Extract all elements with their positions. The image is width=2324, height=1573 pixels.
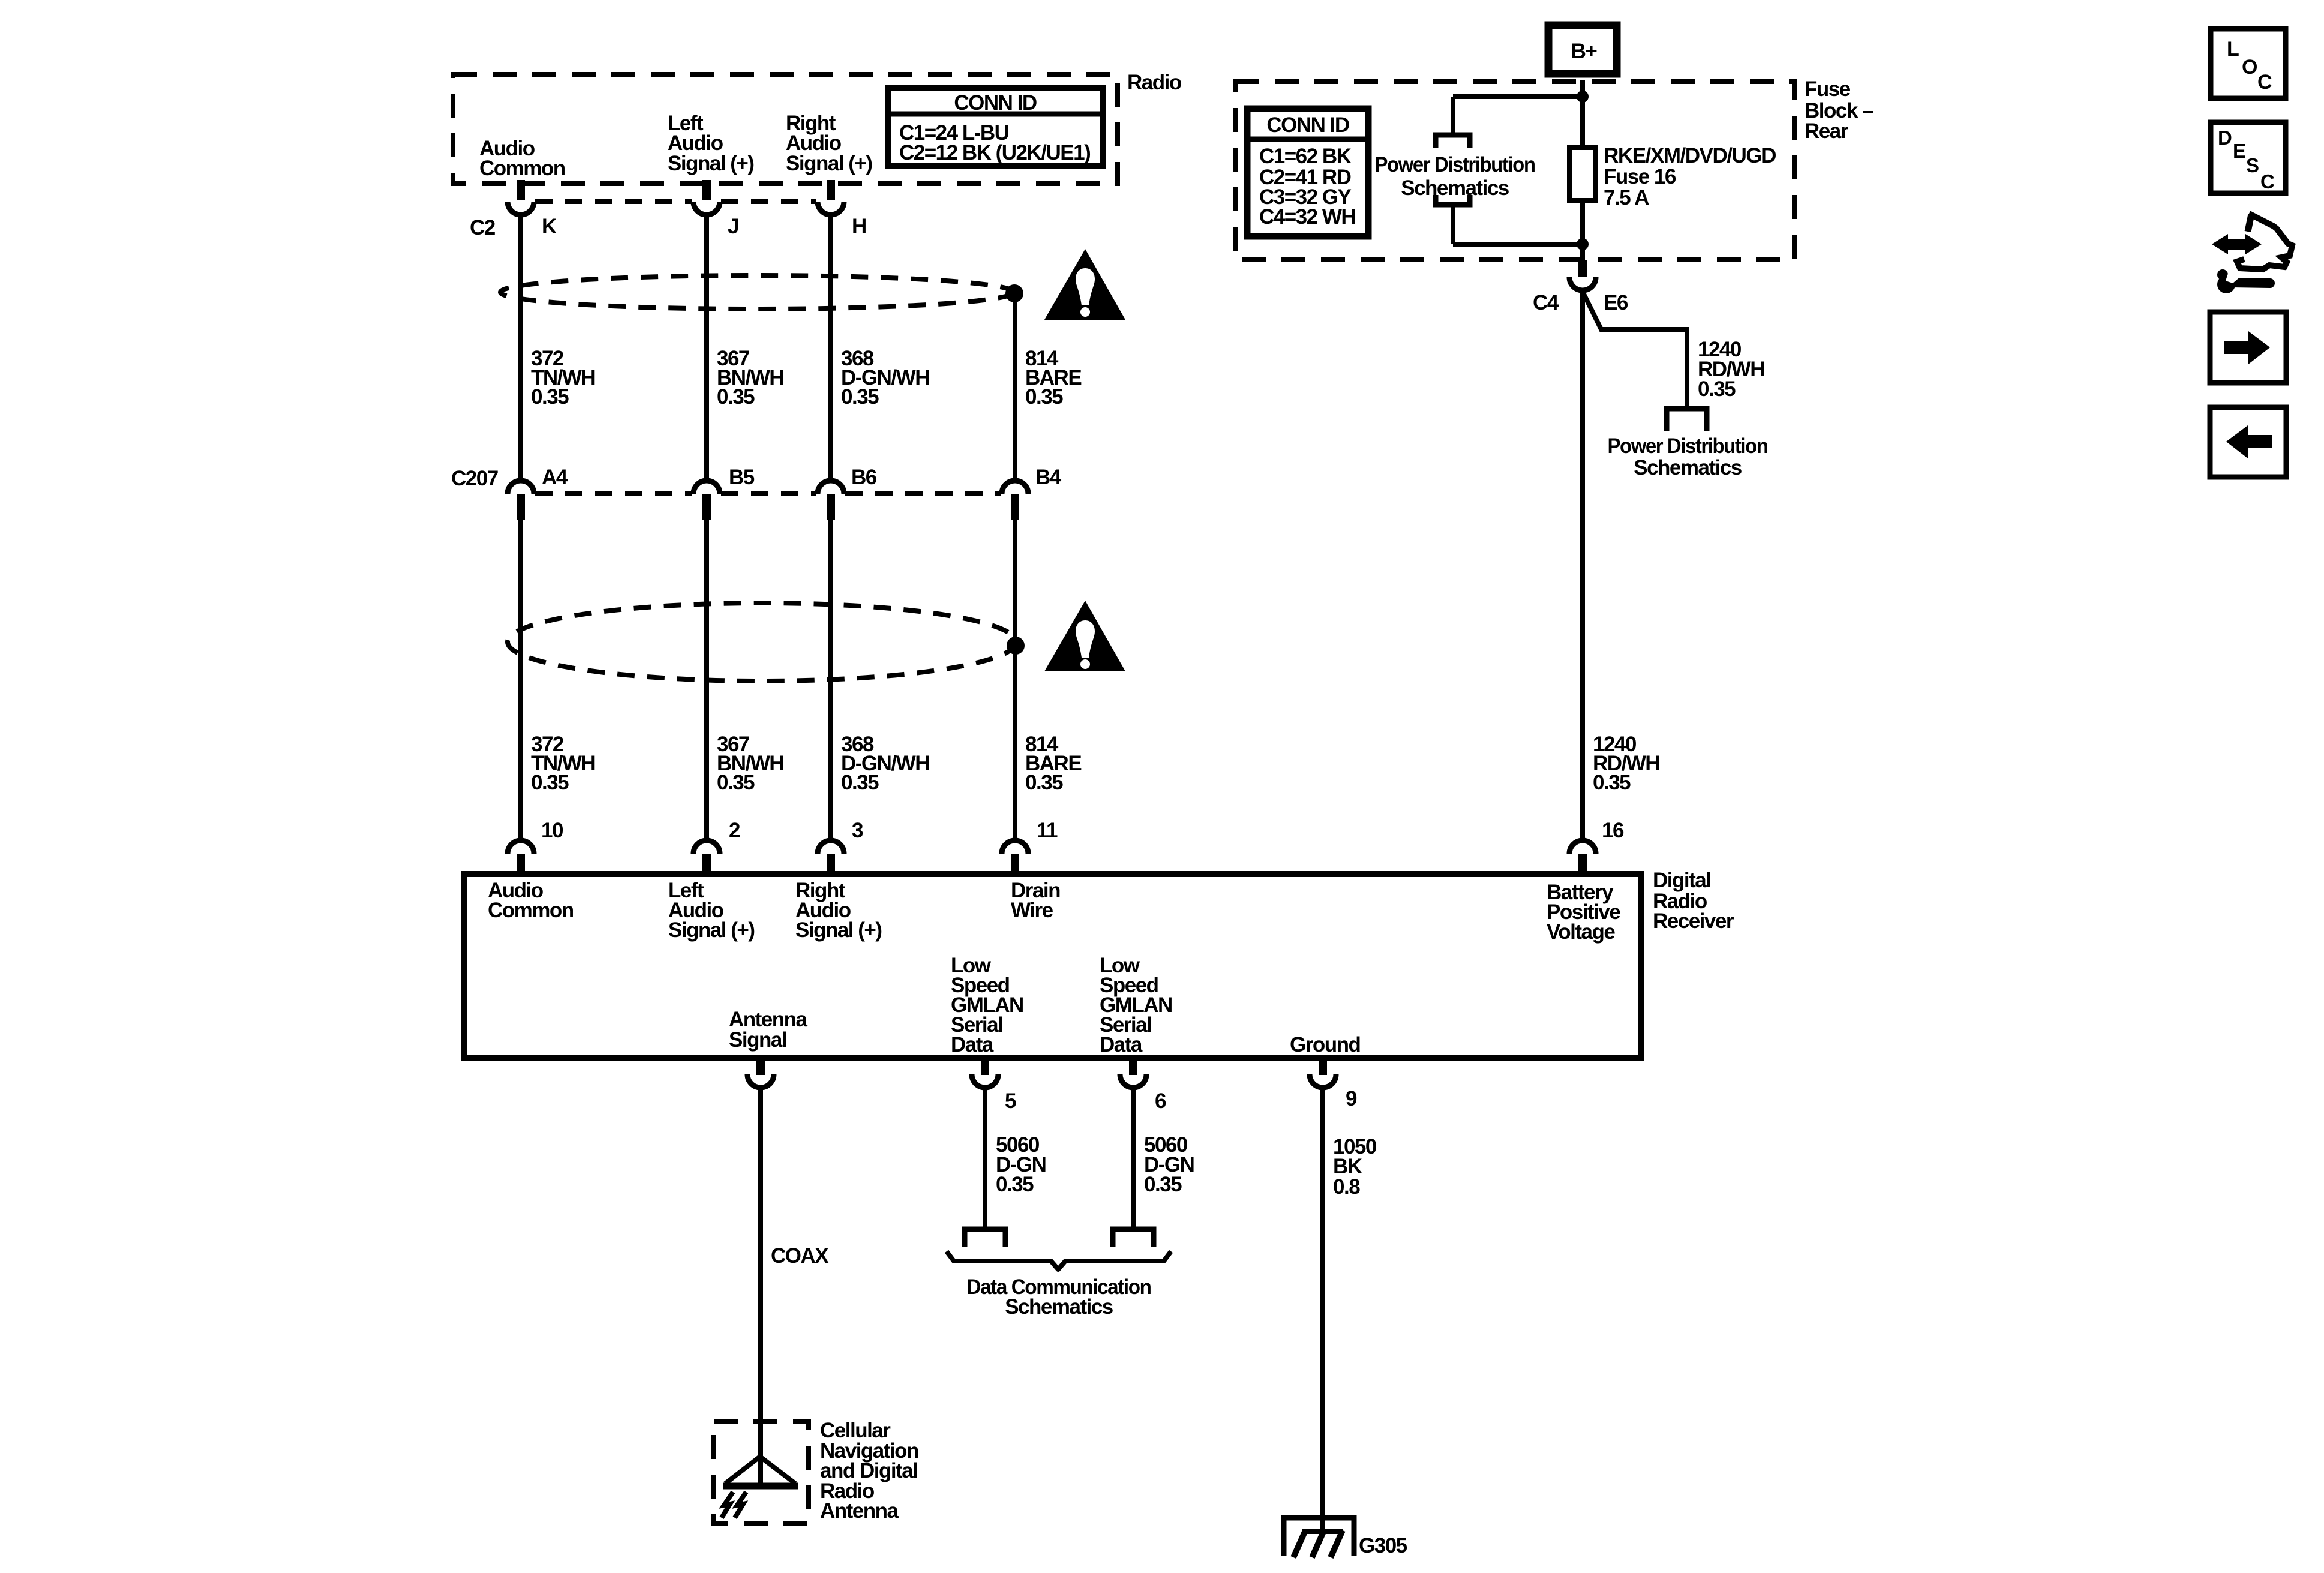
wire top bracket to junction [1453,94,1583,99]
svg-text:7.5 A: 7.5 A [1604,186,1649,209]
svg-text:6: 6 [1155,1089,1166,1113]
wire 368 D-GN/WH lower [828,520,833,841]
svg-text:0.35: 0.35 [1025,771,1063,794]
icon LOC box [2211,29,2286,98]
svg-text:Common: Common [479,157,565,180]
svg-text:B5: B5 [729,466,755,489]
svg-text:0.35: 0.35 [1593,771,1631,794]
ground symbol G305 [1284,1518,1354,1556]
svg-text:Common: Common [488,899,574,922]
icon back arrow box [2210,407,2286,477]
svg-text:Schematics: Schematics [1401,176,1509,200]
fuse block rear dashed box [1235,82,1795,260]
svg-text:O: O [2242,56,2257,79]
svg-text:Antenna: Antenna [820,1499,899,1523]
svg-text:0.35: 0.35 [841,771,879,794]
svg-text:Schematics: Schematics [1005,1295,1113,1319]
svg-text:Receiver: Receiver [1653,909,1734,933]
svg-text:C2: C2 [470,216,496,239]
off-page bracket 1240 [1667,409,1707,431]
receiver pin 5 [981,1058,989,1075]
fuse RKE/XM/DVD/UGD Fuse 16 7.5 A [1569,148,1596,200]
connector C2 pin J [702,180,711,200]
icon forward arrow box [2210,312,2286,383]
junction dot shield upper [1005,284,1023,302]
warning triangle 2 [1044,601,1125,671]
svg-text:Data: Data [951,1033,994,1056]
icon shop tools panel outline [2248,214,2251,232]
svg-text:5: 5 [1005,1089,1016,1113]
svg-text:Schematics: Schematics [1634,456,1742,479]
connector C2 pin H [827,180,835,200]
svg-text:K: K [542,215,557,238]
svg-text:Signal: Signal [729,1028,786,1052]
wire 372 TN/WH upper [518,214,523,481]
svg-text:Signal (+): Signal (+) [668,918,755,942]
svg-text:A4: A4 [542,466,568,489]
off-page bracket pin 5 [965,1229,1005,1247]
wire 1240 RD/WH battery feed [1580,290,1585,841]
svg-text:0.35: 0.35 [996,1173,1034,1196]
power distribution bottom off-page bracket [1436,195,1470,205]
power distribution top off-page bracket [1436,135,1470,148]
fuse block CONN ID table [1247,109,1368,236]
cellular antenna dashed box [714,1422,809,1524]
receiver pin 2 [693,840,720,854]
svg-text:E: E [2233,140,2245,162]
svg-text:L: L [2227,38,2239,61]
svg-text:0.35: 0.35 [717,385,755,409]
svg-text:G305: G305 [1359,1534,1407,1557]
brace data communication [947,1251,1171,1269]
svg-text:2: 2 [729,819,740,842]
shield ellipse upper [500,275,1014,309]
wire B+ to fuse [1580,80,1585,148]
wire bottom bracket to junction [1453,242,1583,247]
wire 368 D-GN/WH upper [828,214,833,481]
svg-text:Fuse 16: Fuse 16 [1604,165,1676,188]
svg-text:Rear: Rear [1804,119,1849,143]
svg-text:COAX: COAX [771,1244,829,1268]
receiver pin antenna signal [756,1058,765,1075]
svg-text:C4: C4 [1533,291,1559,314]
svg-text:Digital: Digital [1653,869,1710,892]
radio CONN ID table [888,88,1103,166]
svg-text:9: 9 [1346,1087,1357,1110]
connector C207 dashed body line [535,491,692,496]
svg-text:0.35: 0.35 [531,771,569,794]
svg-text:C: C [2260,170,2274,193]
junction dot shield lower [1007,637,1025,655]
svg-text:CONN ID: CONN ID [954,91,1037,115]
wire 372 TN/WH lower [518,520,523,841]
off-page bracket pin 6 [1113,1229,1154,1247]
svg-text:0.35: 0.35 [717,771,755,794]
wire antenna coax [758,1087,763,1484]
svg-text:Ground: Ground [1290,1033,1360,1056]
svg-text:C2=12 BK (U2K/UE1): C2=12 BK (U2K/UE1) [899,141,1090,164]
svg-text:Power Distribution: Power Distribution [1608,434,1768,458]
svg-text:3: 3 [852,819,863,842]
warning triangle 1 [1044,249,1125,320]
B+ battery feed symbol [1548,25,1617,74]
shield ellipse lower [508,603,1016,681]
svg-text:0.8: 0.8 [1333,1175,1360,1199]
svg-text:D: D [2218,127,2232,149]
icon shop tools wrench [2217,275,2235,293]
svg-text:Signal (+): Signal (+) [795,918,882,942]
svg-text:E6: E6 [1604,291,1628,314]
svg-text:Data: Data [1100,1033,1143,1056]
svg-text:0.35: 0.35 [841,385,879,409]
svg-text:C4=32 WH: C4=32 WH [1259,205,1355,229]
svg-text:0.35: 0.35 [1144,1173,1182,1196]
svg-text:B6: B6 [851,466,877,489]
junction dot top [1577,91,1589,103]
icon shop tools double arrow [2212,234,2262,254]
svg-text:Signal (+): Signal (+) [668,152,754,175]
svg-text:Power Distribution: Power Distribution [1375,153,1535,176]
connector C207 pin B5 [693,481,720,494]
connector C207 pin B6 [818,481,844,494]
receiver pin 11 [1002,840,1028,854]
svg-text:10: 10 [541,819,563,842]
wire 814 BARE lower [1013,520,1017,841]
connector C2 pin K [517,180,525,200]
svg-text:H: H [852,215,866,238]
wire 5060 D-GN pin 5 [983,1087,987,1229]
svg-text:J: J [728,215,738,238]
svg-text:0.35: 0.35 [1698,377,1736,401]
radio component dashed box [453,74,1118,184]
svg-text:0.35: 0.35 [531,385,569,409]
svg-text:C: C [2257,71,2272,94]
receiver pin 3 [818,840,844,854]
svg-text:S: S [2246,154,2259,176]
icon DESC box [2211,122,2286,193]
svg-text:11: 11 [1037,819,1058,842]
receiver pin 16 [1569,840,1596,854]
antenna lightning bolts [722,1492,733,1518]
receiver pin 9 [1319,1058,1327,1075]
junction dot bottom [1577,238,1589,250]
svg-text:Radio: Radio [1127,71,1182,94]
svg-text:Voltage: Voltage [1547,920,1615,944]
wire 367 BN/WH upper [704,214,709,481]
svg-text:B+: B+ [1571,40,1598,63]
connector C4 pin E6 [1578,260,1587,277]
wire 1050 BK ground [1320,1087,1325,1532]
svg-text:C207: C207 [451,467,498,490]
antenna symbol [725,1457,760,1484]
connector C207 pin B4 [1002,481,1028,494]
connector C2 dashed body line [535,199,692,204]
wire 814 BARE upper [1013,293,1017,481]
svg-text:Wire: Wire [1011,899,1053,922]
svg-text:Signal (+): Signal (+) [786,152,872,175]
connector C207 pin A4 [508,481,534,494]
svg-text:Fuse: Fuse [1804,77,1851,101]
svg-text:RKE/XM/DVD/UGD: RKE/XM/DVD/UGD [1604,144,1776,167]
svg-text:CONN ID: CONN ID [1266,113,1349,137]
svg-text:B4: B4 [1035,466,1062,489]
wire 367 BN/WH lower [704,520,709,841]
digital radio receiver box [464,874,1641,1058]
receiver pin 6 [1129,1058,1137,1075]
receiver pin 10 [508,840,534,854]
wire branch E6 to power distribution [1583,292,1687,406]
wire fuse to C4 [1580,200,1585,260]
svg-text:16: 16 [1602,819,1624,842]
svg-text:0.35: 0.35 [1025,385,1063,409]
svg-text:C1=62 BK: C1=62 BK [1259,145,1352,168]
wire 5060 D-GN pin 6 [1131,1087,1136,1229]
